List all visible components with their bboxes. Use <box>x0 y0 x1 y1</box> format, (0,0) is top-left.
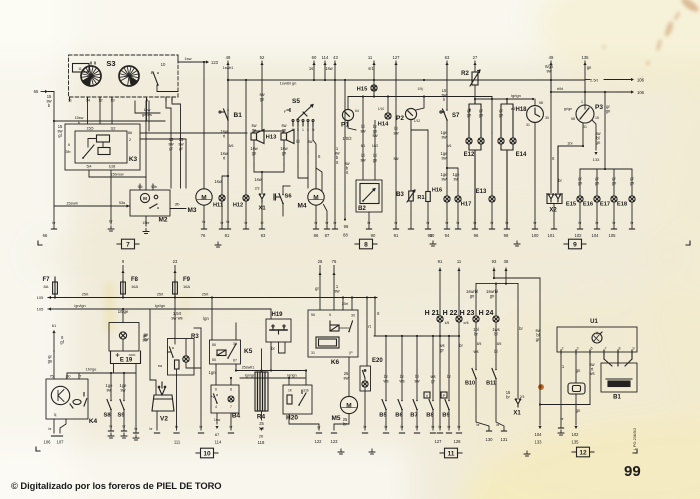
svg-text:B5: B5 <box>379 413 387 419</box>
wire 49 to X2 <box>550 61 552 195</box>
svg-text:bl: bl <box>261 221 264 225</box>
relay K4 box <box>46 379 88 419</box>
svg-text:gr: gr <box>169 146 173 151</box>
ground <box>369 449 375 454</box>
svg-text:E16: E16 <box>583 202 594 208</box>
svg-text:86: 86 <box>128 131 132 135</box>
svg-text:25rt: 25rt <box>202 293 209 297</box>
svg-text:107: 107 <box>57 440 65 445</box>
svg-text:131: 131 <box>501 437 509 442</box>
svg-text:15br/sw: 15br/sw <box>110 173 124 177</box>
junction <box>550 79 552 81</box>
svg-text:8/5: 8/5 <box>477 342 482 346</box>
svg-text:B1: B1 <box>613 395 621 401</box>
wire to terminal 123 <box>178 61 207 63</box>
svg-text:gn: gn <box>576 408 581 413</box>
terminal arrow <box>318 272 321 275</box>
svg-text:sw: sw <box>106 388 111 393</box>
wire <box>122 266 124 283</box>
switch B6 <box>398 400 403 411</box>
svg-text:25rt: 25rt <box>82 293 89 297</box>
labels 1ge sw <box>120 383 128 393</box>
wire <box>401 410 403 431</box>
wire <box>348 121 356 131</box>
svg-text:E: E <box>151 70 154 75</box>
svg-text:ge: ge <box>260 97 265 102</box>
svg-text:sw: sw <box>441 156 446 161</box>
svg-text:27: 27 <box>473 55 478 60</box>
wire <box>235 364 237 371</box>
svg-text:K4: K4 <box>89 418 98 425</box>
wire K5 85 down <box>215 364 217 385</box>
wire to B5 <box>385 336 387 401</box>
wire to S8 <box>110 373 112 401</box>
svg-text:25rt: 25rt <box>157 293 164 297</box>
labels <box>473 349 478 354</box>
svg-text:98: 98 <box>344 224 349 229</box>
svg-text:S8: S8 <box>103 413 111 419</box>
sender B3 <box>407 190 415 202</box>
labels br ge sw <box>372 124 378 138</box>
svg-text:ge: ge <box>373 158 378 163</box>
wire F8 to E19 <box>122 309 124 323</box>
labels 1ge sw <box>441 130 449 140</box>
warning lamp H15 <box>371 85 377 91</box>
lamp E15 <box>577 196 583 202</box>
junction <box>211 296 213 298</box>
svg-text:99: 99 <box>624 463 641 480</box>
terminal tick <box>57 435 62 437</box>
wire to 66 <box>53 206 55 228</box>
terminal tick <box>51 435 56 437</box>
wire <box>534 123 536 229</box>
fuse F9 <box>173 280 178 296</box>
arrow <box>206 60 209 63</box>
labels sw b rt <box>334 146 339 165</box>
terminal tick <box>383 432 388 434</box>
svg-text:gn: gn <box>467 113 472 118</box>
svg-text:1/12: 1/12 <box>414 119 421 123</box>
instrument circle S3 right <box>119 66 139 86</box>
svg-text:1s: 1s <box>309 66 313 71</box>
wire <box>631 169 633 196</box>
labels <box>414 374 419 384</box>
terminal tick <box>425 228 430 230</box>
wire R4 feed <box>261 349 263 372</box>
svg-text:1sw: 1sw <box>214 179 221 184</box>
resistor unit R3 box <box>168 339 195 376</box>
svg-text:7: 7 <box>230 405 232 409</box>
junction <box>423 79 425 81</box>
label bl <box>296 139 299 144</box>
junction <box>439 335 441 337</box>
frame corner <box>686 241 690 245</box>
terminal tick <box>219 228 224 230</box>
wire <box>170 208 186 210</box>
labels <box>383 374 388 384</box>
labels rt/gn sw <box>545 64 554 74</box>
wire S7 column <box>446 61 448 109</box>
svg-text:31: 31 <box>526 123 530 127</box>
labels bl sw <box>360 124 365 134</box>
svg-text:br: br <box>343 422 347 427</box>
junction <box>458 335 460 337</box>
wire M2 ground <box>145 216 147 226</box>
svg-text:H 24: H 24 <box>479 310 494 317</box>
svg-text:gn: gn <box>490 294 495 299</box>
terminal arrow <box>312 62 315 65</box>
junction <box>123 372 125 374</box>
svg-text:1: 1 <box>53 349 55 353</box>
svg-text:11: 11 <box>368 55 373 60</box>
E14 join <box>501 144 513 228</box>
boxed P <box>441 392 447 398</box>
M2 internal contacts <box>149 195 159 209</box>
wire M3 ground <box>203 206 205 229</box>
wire <box>150 380 156 395</box>
wire <box>230 378 232 385</box>
svg-text:S3: S3 <box>106 59 115 68</box>
wire 1br/ge <box>67 372 136 374</box>
wire <box>177 55 179 62</box>
svg-text:50: 50 <box>430 233 435 238</box>
K5 lever <box>228 344 236 358</box>
svg-text:ge: ge <box>252 128 257 133</box>
bus lgrign <box>475 98 533 100</box>
wire <box>596 169 598 196</box>
wire <box>469 109 471 111</box>
svg-text:H12: H12 <box>233 202 243 208</box>
label 1gn <box>209 370 217 375</box>
svg-text:114: 114 <box>322 55 329 60</box>
svg-text:114: 114 <box>215 440 222 445</box>
wire S3 pin to K3 <box>148 101 150 131</box>
wire <box>297 126 299 165</box>
svg-text:11: 11 <box>448 450 455 457</box>
svg-text:87: 87 <box>325 233 330 238</box>
wire to H23 <box>475 284 477 316</box>
svg-text:gr: gr <box>315 286 319 291</box>
R3 resistor element <box>175 360 180 369</box>
connector housing <box>568 383 585 394</box>
terminal tick <box>228 432 233 434</box>
terminal tick <box>430 432 435 434</box>
lamp E14 left <box>498 138 504 144</box>
junction <box>324 79 326 81</box>
junction <box>506 98 508 100</box>
arrow <box>574 426 577 429</box>
svg-text:M: M <box>313 194 318 201</box>
wire <box>216 413 218 424</box>
labels 25 sw <box>259 421 265 431</box>
svg-text:E15: E15 <box>566 202 577 208</box>
lamp H21 <box>437 316 443 322</box>
terminal tick <box>51 228 56 230</box>
wire <box>123 410 125 431</box>
wire <box>298 165 308 178</box>
svg-text:lgn: lgn <box>203 316 209 321</box>
svg-text:M4: M4 <box>297 203 306 210</box>
svg-text:122: 122 <box>315 439 323 444</box>
svg-text:s/1: s/1 <box>368 66 374 71</box>
labels <box>562 364 565 369</box>
wire long <box>200 328 202 430</box>
wire <box>221 201 223 228</box>
circuit number 11 <box>440 448 462 458</box>
wire to V2 area <box>149 309 151 380</box>
svg-text:B2: B2 <box>358 206 366 212</box>
wire <box>282 204 284 217</box>
label <box>254 177 261 182</box>
motor M5 <box>340 396 357 413</box>
sender B2 box <box>356 180 382 212</box>
labels sw bl gn <box>535 328 541 342</box>
resistor R4 hatched <box>255 372 268 411</box>
labels gr ge <box>48 354 53 364</box>
wire <box>410 202 412 228</box>
wire <box>156 411 158 430</box>
terminal tick <box>414 432 419 434</box>
wire 2.5rt <box>604 79 632 81</box>
junction <box>493 277 495 279</box>
svg-text:sw: sw <box>120 388 125 393</box>
arrow <box>631 90 634 93</box>
svg-text:ge ws: ge ws <box>142 113 152 117</box>
terminal tick <box>198 432 203 434</box>
svg-text:B4: B4 <box>232 413 241 420</box>
relay K3 lever <box>83 145 94 158</box>
svg-text:H14: H14 <box>378 122 389 128</box>
svg-text:15|5: 15|5 <box>87 127 94 131</box>
label <box>309 66 313 71</box>
circuit number 10 <box>196 448 218 458</box>
labels <box>479 108 484 118</box>
wire to B9 <box>448 336 450 401</box>
label <box>368 66 374 71</box>
svg-text:X1: X1 <box>513 411 521 417</box>
svg-text:98: 98 <box>504 233 509 238</box>
svg-text:94: 94 <box>445 233 450 238</box>
terminal arrow <box>226 62 229 65</box>
lamp in E19 <box>119 332 126 339</box>
svg-text:1: 1 <box>581 100 583 104</box>
terminal tick <box>259 228 264 230</box>
wire K4 ground 2 <box>60 419 66 433</box>
relay K3 outer box <box>65 124 140 170</box>
svg-text:gn: gn <box>595 181 600 186</box>
terminal arrow <box>332 272 335 275</box>
frame corner <box>36 447 40 451</box>
svg-text:6: 6 <box>215 388 217 392</box>
svg-text:10: 10 <box>203 450 211 457</box>
labels gr gn <box>499 108 504 118</box>
E12 feed <box>469 99 481 138</box>
wire 43 column <box>334 61 336 228</box>
wire <box>254 131 262 133</box>
labels <box>466 289 478 299</box>
svg-text:128: 128 <box>454 439 462 444</box>
U1 pin numbers <box>561 347 635 355</box>
fuse F7 stub <box>54 277 56 282</box>
svg-text:br: br <box>506 395 510 400</box>
svg-text:11: 11 <box>78 67 82 71</box>
wire link <box>540 404 590 406</box>
K5 coil <box>217 350 226 356</box>
terminal tick <box>393 228 398 230</box>
labels 15 br <box>506 390 511 400</box>
svg-text:gn: gn <box>479 113 484 118</box>
svg-text:102: 102 <box>572 432 580 437</box>
svg-text:S7: S7 <box>452 113 460 119</box>
label rt <box>552 156 555 161</box>
wire to H11 <box>222 176 228 195</box>
ground <box>108 433 114 438</box>
svg-text:10: 10 <box>161 62 166 67</box>
svg-text:H11: H11 <box>213 202 223 208</box>
label <box>271 346 275 351</box>
svg-text:1/10: 1/10 <box>378 107 385 111</box>
svg-text:R1: R1 <box>417 195 424 201</box>
wire <box>122 340 124 351</box>
arrow up 61 <box>52 330 55 333</box>
ground under M2 <box>143 229 149 234</box>
wire 86 feed <box>140 132 247 134</box>
svg-text:87: 87 <box>233 359 237 363</box>
svg-text:25rt: 25rt <box>342 302 348 306</box>
wire <box>475 322 477 369</box>
wire F9 to R3 <box>174 298 176 339</box>
wire P2 to B3 <box>410 120 412 190</box>
svg-text:lgrign: lgrign <box>287 374 296 378</box>
wire <box>186 362 201 368</box>
svg-text:gr: gr <box>179 146 183 151</box>
labels <box>473 327 479 337</box>
wire feed E lamps <box>604 92 606 169</box>
wire <box>432 410 434 431</box>
wire to P3 <box>584 61 586 106</box>
wire <box>348 357 350 396</box>
lamp unit E19 box <box>109 323 139 352</box>
wire into K4 pin 30 <box>66 373 68 379</box>
labels sw bl gn <box>595 131 601 145</box>
labels gr gn <box>578 176 583 186</box>
svg-text:76: 76 <box>201 233 206 238</box>
junction <box>270 369 272 371</box>
arrow down 133 <box>594 152 597 155</box>
svg-text:rt/bl: rt/bl <box>557 87 563 91</box>
svg-text:M: M <box>201 194 206 201</box>
terminal tick <box>611 228 616 230</box>
lamp E14 right <box>510 138 516 144</box>
svg-text:14: 14 <box>86 99 90 103</box>
lamp in E20 <box>362 381 368 387</box>
svg-text:R2: R2 <box>461 71 469 77</box>
svg-text:11: 11 <box>68 99 72 103</box>
wire lgn/gn <box>240 377 305 379</box>
svg-text:100: 100 <box>532 233 540 238</box>
svg-text:lgn/gn: lgn/gn <box>245 374 255 378</box>
wire <box>364 387 366 391</box>
svg-text:30: 30 <box>351 314 355 318</box>
wire crossover <box>54 120 149 122</box>
svg-text:sw: sw <box>307 139 312 144</box>
junction <box>288 377 290 379</box>
labels <box>459 343 463 348</box>
svg-text:15: 15 <box>595 116 599 120</box>
wire <box>140 138 186 140</box>
svg-text:gr: gr <box>431 379 435 384</box>
svg-text:1sw: 1sw <box>144 108 151 112</box>
svg-text:88: 88 <box>343 233 348 238</box>
svg-text:sw: sw <box>393 156 398 161</box>
labels <box>344 161 349 175</box>
labels 1ge sw <box>106 383 114 393</box>
wire <box>139 184 141 190</box>
terminal tick <box>324 228 329 230</box>
labels 1sw rt <box>220 129 227 139</box>
terminal arrow <box>333 62 336 65</box>
svg-text:111: 111 <box>174 440 181 445</box>
svg-text:15sw: 15sw <box>75 116 84 120</box>
svg-text:gn: gn <box>612 181 617 186</box>
terminal tick <box>532 228 537 230</box>
labels ge sw <box>143 332 149 342</box>
wire <box>553 204 555 228</box>
svg-text:sw: sw <box>334 289 339 294</box>
junction <box>305 369 307 371</box>
svg-text:P2: P2 <box>396 115 404 122</box>
E12 join <box>469 144 481 228</box>
clock H18 <box>527 106 544 123</box>
svg-text:gn: gn <box>576 368 581 373</box>
lamp E13 <box>489 196 495 202</box>
wire <box>307 178 309 188</box>
wire <box>254 165 262 172</box>
bus 25rt <box>48 297 377 299</box>
svg-text:gr: gr <box>440 348 444 353</box>
labels 1sw ge <box>250 146 257 156</box>
label rt <box>377 311 380 316</box>
labels <box>486 289 498 299</box>
lamp H17 <box>455 196 461 202</box>
junction <box>387 95 389 97</box>
relay K3 coil <box>97 135 110 142</box>
switch B7 <box>413 400 418 411</box>
svg-text:5: 5 <box>329 313 331 317</box>
wire <box>110 410 112 431</box>
gauge P1 <box>342 109 353 120</box>
junction <box>373 95 375 97</box>
svg-text:X2: X2 <box>549 208 557 214</box>
wire to M3 <box>203 62 205 189</box>
fuse F7 <box>53 280 58 296</box>
wire <box>99 101 101 124</box>
wire <box>174 266 176 283</box>
switch S8 <box>107 400 112 411</box>
wire into K4 pin T <box>78 373 80 379</box>
svg-text:P: P <box>443 393 446 398</box>
wire E13 <box>491 133 493 196</box>
labels 1ge sw <box>441 172 449 182</box>
terminal tick <box>225 228 230 230</box>
junction <box>385 335 387 337</box>
svg-text:sw: sw <box>360 129 365 134</box>
switch S5 contacts <box>287 105 314 122</box>
svg-text:gr/gn: gr/gn <box>564 107 572 111</box>
svg-text:105: 105 <box>37 295 44 300</box>
svg-text:75|: 75| <box>50 375 55 379</box>
labels 15 sw gr <box>168 137 174 151</box>
